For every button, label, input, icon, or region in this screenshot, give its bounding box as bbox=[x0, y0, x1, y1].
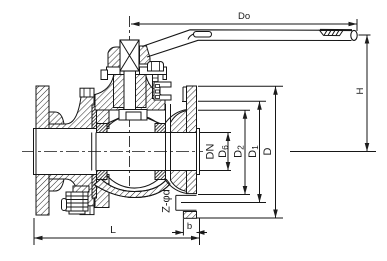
left joint gasket upper bbox=[92, 105, 97, 129]
left flange plate upper bbox=[36, 86, 49, 129]
left pipe wall upper bbox=[49, 97, 94, 129]
handle bar bbox=[142, 30, 352, 57]
stem foot cone right bbox=[147, 118, 160, 124]
left joint bolt top facet bbox=[84, 88, 90, 97]
dimension D arrow top bbox=[273, 86, 278, 95]
stem foot tang bbox=[126, 112, 141, 120]
dimension DN D6 arrow bottom bbox=[226, 162, 231, 171]
gland step left bbox=[101, 70, 108, 80]
dimension H line bbox=[366, 35, 368, 152]
dimension b arrow left bbox=[175, 230, 183, 235]
bottom drain plug body bbox=[66, 192, 88, 211]
left pipe bore top line bbox=[34, 128, 99, 130]
dimension D1 arrow top bbox=[257, 101, 262, 110]
dimension DN D6 extension top bbox=[200, 132, 232, 134]
seat ring upper-right bbox=[155, 124, 166, 133]
seat ring lower-left bbox=[97, 171, 108, 180]
dimension L arrow left bbox=[34, 236, 43, 241]
body interior shoulder left bbox=[96, 109, 113, 111]
body bottom interior arc bbox=[101, 179, 167, 192]
left joint gasket lines across bore bbox=[92, 133, 96, 171]
svg-text:Do: Do bbox=[238, 11, 250, 22]
left joint gasket lower bbox=[92, 175, 97, 199]
left flange raised face bbox=[34, 129, 37, 175]
left flange hub boss lower bbox=[49, 179, 64, 191]
dimension D extension top bbox=[198, 85, 283, 87]
left pipe wall lower bbox=[49, 175, 94, 207]
dimension Do arrow right bbox=[349, 22, 358, 27]
left flange hub boss upper bbox=[49, 112, 64, 124]
left flange plate lower bbox=[36, 175, 49, 216]
dimension b line right tail bbox=[197, 232, 208, 234]
right flange hub upper hatched bbox=[171, 111, 188, 133]
handle grip band outline bbox=[320, 30, 344, 35]
right flange plate mid bbox=[187, 171, 197, 194]
dimension b arrow right bbox=[197, 230, 205, 235]
right joint face line 2 bbox=[170, 104, 172, 180]
dimension D extension bottom bbox=[197, 217, 284, 219]
packing right bbox=[136, 75, 147, 108]
dimension L extension right bbox=[199, 218, 201, 245]
handle top thick edge bbox=[320, 29, 352, 31]
gland bolt facet lines bbox=[152, 62, 160, 72]
right flange raised face bbox=[197, 129, 200, 175]
dimension b extension left bbox=[182, 219, 184, 236]
body neck hatched left bbox=[95, 76, 124, 110]
gland step right bbox=[163, 75, 167, 80]
dimension D2 line bbox=[244, 110, 246, 194]
right flange hub top surface bbox=[182, 101, 197, 103]
right joint hub curve top outer bbox=[166, 110, 188, 123]
seat ring upper-left bbox=[97, 124, 108, 133]
bottom drain plug line bbox=[66, 196, 88, 207]
dimension D line bbox=[275, 86, 277, 218]
handle slot left lead bbox=[188, 34, 194, 40]
stem square head box bbox=[120, 40, 139, 71]
dimension D1 arrow bottom bbox=[257, 194, 262, 203]
dimension DN D6 line bbox=[227, 133, 229, 171]
right flange bolt hole left cap bbox=[175, 195, 177, 210]
stem foot bbox=[119, 110, 147, 121]
packing left bbox=[114, 75, 125, 108]
gland bolt shaft threads bbox=[153, 78, 159, 96]
right flange bolt hole top line bbox=[176, 194, 197, 196]
body interior shoulder right bbox=[152, 109, 165, 111]
stem head cross diagonal 1 bbox=[120, 40, 139, 71]
bracket tab 2 bbox=[156, 90, 160, 93]
dimension L arrow right bbox=[191, 236, 200, 241]
dimension DN D6 extension bottom bbox=[200, 170, 232, 172]
dimension D1 extension bottom bbox=[181, 202, 266, 204]
seat ring lower-right bbox=[155, 171, 166, 180]
bottom drain tab bbox=[62, 199, 67, 211]
dimension b line left tail bbox=[172, 232, 183, 234]
dimension D arrow bottom bbox=[273, 210, 278, 219]
gland plate left bbox=[107, 67, 121, 75]
dimension D1 line bbox=[259, 101, 261, 202]
left pipe bore bottom line bbox=[34, 174, 99, 176]
dimension D2 arrow top bbox=[243, 110, 248, 119]
dimension DN D6 arrow top bbox=[226, 133, 231, 142]
dimension L line bbox=[34, 237, 200, 239]
bottom drain plug bottom bbox=[69, 211, 85, 214]
dimension H arrow bottom bbox=[365, 143, 370, 152]
right flange top notch bbox=[183, 87, 187, 102]
dimension Do line bbox=[131, 23, 357, 25]
svg-text:Z-φd: Z-φd bbox=[161, 189, 173, 213]
handle hub right bbox=[140, 46, 151, 64]
right flange plate bottom bbox=[183, 212, 196, 219]
bottom drain plug facets bbox=[71, 192, 83, 211]
stem head cross diagonal 2 bbox=[120, 40, 139, 71]
bore line center top bbox=[98, 132, 200, 134]
node vertical stem centerline bbox=[129, 16, 131, 186]
left joint bolt bottom facet bbox=[84, 206, 90, 215]
left joint body column lower bbox=[95, 175, 109, 208]
stem support bracket right bbox=[154, 82, 171, 100]
dimension L extension left bbox=[33, 218, 35, 245]
svg-text:L: L bbox=[110, 224, 116, 236]
ball bottom arc bbox=[103, 171, 165, 189]
wire H reference baseline bbox=[290, 151, 376, 153]
gland bolt shaft right bbox=[153, 75, 159, 99]
handle grip hatch bbox=[324, 30, 339, 35]
left joint bolt top bbox=[80, 88, 94, 97]
stem column bbox=[124, 71, 136, 110]
right joint face line 1 bbox=[165, 104, 167, 180]
dimension H extension top bbox=[359, 34, 371, 36]
bracket tab 3 bbox=[156, 96, 160, 99]
bore line center bottom bbox=[98, 170, 200, 172]
handle slot bbox=[194, 32, 212, 38]
dimension D2 extension top bbox=[198, 109, 250, 111]
handle hub left nut bbox=[108, 47, 120, 67]
dimension D1 extension top bbox=[198, 100, 266, 102]
right flange plate top bbox=[187, 86, 197, 133]
bottom drain boss collar bbox=[73, 186, 89, 192]
handle end cap bbox=[351, 30, 357, 40]
svg-text:D: D bbox=[262, 147, 274, 155]
body bottom exterior line bbox=[94, 184, 170, 198]
svg-text:DN: DN bbox=[205, 144, 217, 160]
left joint bolt bottom bbox=[80, 206, 94, 215]
dimension D2 arrow bottom bbox=[243, 186, 248, 195]
dimension Do arrow left bbox=[131, 22, 140, 27]
left joint body column upper bbox=[95, 95, 109, 129]
stem foot cone left bbox=[107, 118, 119, 124]
gland bolt head right bbox=[148, 62, 164, 72]
gland plate right bbox=[140, 67, 167, 75]
body neck hatched right bbox=[136, 76, 166, 110]
right flange bolt hole bottom line bbox=[176, 209, 197, 211]
body bottom wall hatched bbox=[94, 179, 170, 198]
right joint hub curve bottom outer bbox=[166, 180, 188, 193]
node horizontal valve centerline bbox=[22, 151, 203, 153]
svg-text:H: H bbox=[355, 87, 366, 94]
ball top arc bbox=[103, 115, 165, 133]
bracket tab 1 bbox=[156, 85, 160, 88]
dimension H arrow top bbox=[365, 35, 370, 44]
svg-text:b: b bbox=[187, 221, 192, 232]
dimension D2 extension bottom bbox=[198, 194, 250, 196]
right flange hub lower hatched bbox=[171, 171, 188, 192]
dimension Do right extension line bbox=[356, 19, 358, 31]
